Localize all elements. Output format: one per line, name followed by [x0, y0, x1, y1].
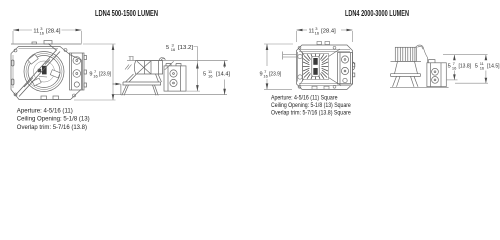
right side view: junction box	[427, 60, 446, 87]
svg-text:[23.9]: [23.9]	[269, 72, 282, 78]
right plan view: pan outline	[297, 45, 353, 89]
dimension 9-7/16 [23.9] left of right plan view	[264, 44, 293, 89]
right plan view: corner screw holes	[298, 46, 336, 88]
svg-text:[13.2]: [13.2]	[178, 45, 194, 51]
left plan view: junction box	[70, 53, 87, 90]
svg-text:[13.8]: [13.8]	[459, 64, 472, 70]
svg-text:LDN4 500-1500 LUMEN: LDN4 500-1500 LUMEN	[95, 8, 158, 18]
svg-text:Ceiling Opening: 5-1/8 (13): Ceiling Opening: 5-1/8 (13)	[17, 116, 90, 123]
svg-text:9: 9	[89, 72, 92, 78]
right plan view: heat sink sunburst fins	[303, 54, 328, 79]
svg-text:9: 9	[260, 72, 263, 78]
dimension 9-7/16 [23.9] right of left plan view	[74, 44, 116, 100]
svg-text:[14.5]: [14.5]	[487, 64, 500, 70]
right side view: cone and trim	[391, 61, 421, 86]
svg-text:11: 11	[33, 28, 39, 34]
left plan view: socket dark blob	[38, 60, 50, 78]
svg-text:Overlap trim: 5-7/16 (13.8): Overlap trim: 5-7/16 (13.8)	[17, 124, 87, 131]
left side view: aperture arrow	[113, 83, 122, 95]
dimension 5-11/16 [14.4] left side view	[224, 61, 226, 95]
right plan view: top and bottom rails	[283, 50, 351, 86]
right side view: heat sink with fins	[395, 47, 416, 61]
svg-text:[28.4]: [28.4]	[321, 28, 336, 34]
title right fixture	[345, 8, 409, 18]
left plan view: torsion spring clips	[28, 54, 60, 86]
svg-text:5: 5	[448, 64, 451, 70]
left fixture notes text	[17, 108, 90, 131]
left side view: wires to junction box	[159, 58, 174, 70]
dimension 11-3/16 [28.4] top of right plan view	[297, 30, 353, 42]
svg-text:16: 16	[40, 30, 45, 35]
svg-text:16: 16	[93, 74, 98, 79]
right plan view: top tabs	[317, 42, 330, 45]
right plan view: heat sink square	[303, 54, 329, 80]
left side view: top mounting bar line	[127, 59, 228, 61]
svg-text:Aperture: 4-5/16 (11): Aperture: 4-5/16 (11)	[17, 108, 73, 115]
svg-text:16: 16	[171, 47, 176, 52]
svg-text:11: 11	[309, 28, 315, 34]
svg-text:Overlap trim: 5-7/16 (13.8) S: Overlap trim: 5-7/16 (13.8) Square	[271, 109, 351, 116]
left plan view: reflector circles	[24, 52, 64, 92]
right fixture notes text	[271, 94, 351, 116]
svg-text:LDN4 2000-3000 LUMEN: LDN4 2000-3000 LUMEN	[345, 8, 409, 18]
svg-text:Aperture: 4-5/16 (11) Square: Aperture: 4-5/16 (11) Square	[271, 94, 338, 101]
right plan view: junction box	[338, 53, 355, 85]
right side view: base line	[390, 86, 449, 88]
right side view: mounting bar	[391, 60, 422, 62]
svg-text:16: 16	[480, 66, 485, 71]
right plan view: bottom clips	[312, 86, 329, 89]
svg-text:5: 5	[475, 64, 478, 70]
svg-text:[14.4]: [14.4]	[216, 72, 231, 78]
left plan view: corner screw holes	[14, 49, 76, 98]
dimension 11-3/16 [28.4] top of left plan view	[13, 30, 82, 44]
left side view: hanger bracket	[125, 57, 134, 70]
svg-text:16: 16	[263, 74, 268, 79]
dimension 5-7/16 [13.8] right side view	[443, 55, 488, 80]
left side view: trim legs	[122, 85, 158, 95]
left side view: reflector cone	[123, 74, 162, 85]
left plan view: mounting pan outline	[11, 44, 82, 100]
left plan view: bottom clips	[41, 96, 59, 100]
svg-text:16: 16	[208, 74, 213, 79]
svg-text:Ceiling Opening: 5-1/8 (13) S: Ceiling Opening: 5-1/8 (13) Square	[271, 102, 351, 109]
right side view: wire conduit	[416, 45, 428, 63]
dimension 5-3/16 [13.2] left side view	[166, 43, 194, 53]
left plan view: side slots	[12, 60, 15, 85]
svg-text:[23.9]: [23.9]	[99, 72, 112, 78]
right plan view: corner brace diagonals	[300, 49, 342, 86]
svg-text:16: 16	[452, 66, 457, 71]
left side view: driver box	[134, 61, 162, 74]
left plan view: diagonal mounting bars	[16, 44, 61, 97]
left side view: junction box	[164, 64, 186, 92]
svg-text:5: 5	[166, 45, 169, 51]
left side view: base line	[112, 94, 227, 96]
svg-text:[28.4]: [28.4]	[46, 28, 61, 34]
right plan view: center LED module	[312, 57, 319, 77]
svg-text:16: 16	[315, 30, 320, 35]
right plan view: left rail with screws	[298, 52, 303, 82]
svg-text:5: 5	[203, 72, 206, 78]
left plan view: top clips	[32, 41, 52, 45]
title left fixture	[95, 8, 158, 18]
dimension 5-11/16 [14.5] right side view	[455, 55, 488, 83]
